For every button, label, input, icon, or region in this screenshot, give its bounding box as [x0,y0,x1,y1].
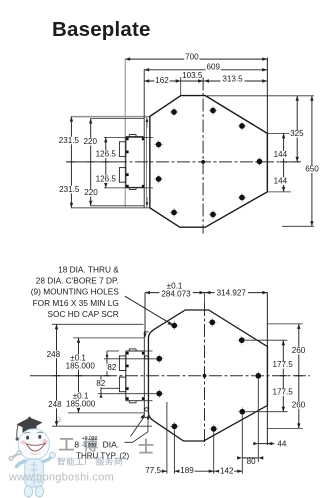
svg-text:士: 士 [138,438,154,457]
svg-text:8: 8 [74,440,79,450]
svg-text:126.5: 126.5 [96,150,117,159]
svg-text:80: 80 [247,457,257,466]
svg-text:-0.000: -0.000 [82,443,96,449]
svg-text:www.gongboshi.com: www.gongboshi.com [8,472,114,484]
svg-text:650: 650 [305,165,319,174]
svg-text:18 DIA. THRU &: 18 DIA. THRU & [58,264,119,274]
svg-text:314.927: 314.927 [217,289,247,298]
svg-text:44: 44 [277,439,287,448]
svg-text:220: 220 [83,137,97,146]
svg-text:THRU TYP. (2): THRU TYP. (2) [76,451,129,460]
svg-text:231.5: 231.5 [59,136,80,145]
svg-text:313.5: 313.5 [222,75,243,84]
svg-text:220: 220 [84,188,98,197]
svg-text:177.5: 177.5 [272,360,293,369]
svg-text:231.5: 231.5 [59,185,80,194]
svg-text:700: 700 [185,52,199,61]
svg-text:185.000: 185.000 [66,361,96,370]
svg-text:126.5: 126.5 [96,175,117,184]
svg-text:工: 工 [58,437,74,454]
svg-text:248: 248 [47,350,61,359]
svg-text:82: 82 [107,363,117,372]
svg-text:284.073: 284.073 [161,290,191,299]
svg-text:260: 260 [292,346,306,355]
svg-text:144: 144 [274,150,288,159]
svg-text:177.5: 177.5 [272,388,293,397]
svg-text:325: 325 [290,129,304,138]
svg-text:162: 162 [155,76,169,85]
svg-text:82: 82 [96,379,106,388]
svg-text:DIA.: DIA. [103,440,120,450]
svg-text:28 DIA. C'BORE 7 DP.: 28 DIA. C'BORE 7 DP. [36,276,119,286]
svg-text:+0.022: +0.022 [82,436,98,442]
svg-text:77.5: 77.5 [145,466,161,475]
svg-text:(9) MOUNTING HOLES: (9) MOUNTING HOLES [31,287,120,297]
svg-text:144: 144 [274,177,288,186]
svg-text:185.000: 185.000 [66,399,96,408]
svg-text:609: 609 [207,63,221,72]
svg-text:189: 189 [180,466,194,475]
svg-text:FOR M16 X 35 MIN LG: FOR M16 X 35 MIN LG [33,298,119,308]
svg-text:248: 248 [48,400,62,409]
svg-text:SOC HD CAP SCR: SOC HD CAP SCR [47,309,118,319]
svg-text:Baseplate: Baseplate [52,18,151,41]
svg-text:260: 260 [292,400,306,409]
svg-text:103.5: 103.5 [182,71,203,80]
svg-text:142: 142 [220,467,234,476]
